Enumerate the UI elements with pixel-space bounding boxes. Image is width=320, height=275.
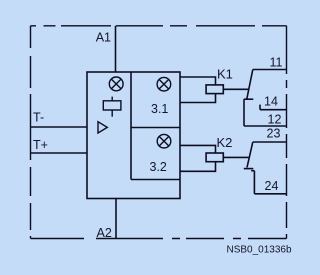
svg-text:A1: A1 bbox=[96, 31, 111, 45]
svg-text:3.1: 3.1 bbox=[151, 102, 168, 116]
svg-text:T-: T- bbox=[33, 111, 44, 125]
svg-text:3.2: 3.2 bbox=[150, 160, 167, 174]
svg-text:A2: A2 bbox=[97, 226, 112, 240]
svg-text:T+: T+ bbox=[33, 138, 48, 152]
svg-text:23: 23 bbox=[267, 127, 281, 141]
svg-text:NSB0_01336b: NSB0_01336b bbox=[227, 245, 292, 256]
svg-text:14: 14 bbox=[264, 95, 278, 109]
svg-text:12: 12 bbox=[268, 113, 282, 127]
svg-text:K2: K2 bbox=[217, 135, 233, 150]
svg-text:K1: K1 bbox=[217, 67, 233, 82]
svg-text:11: 11 bbox=[270, 56, 283, 70]
svg-text:24: 24 bbox=[265, 179, 279, 193]
